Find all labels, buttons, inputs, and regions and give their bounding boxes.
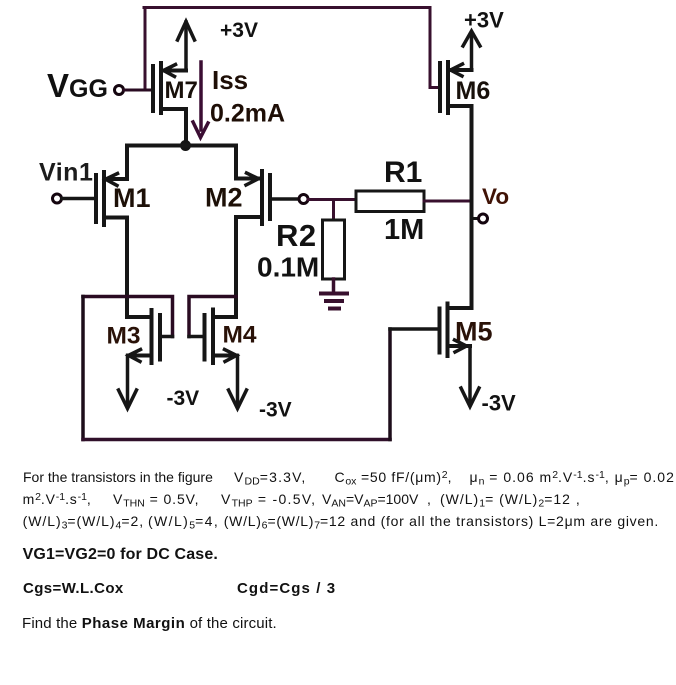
power -3V arrow at M5 source — [461, 346, 516, 416]
svg-text:Iss: Iss — [212, 65, 248, 95]
wire Vin1 to M1 gate — [62, 197, 96, 201]
resistor R1 (1M) — [356, 156, 424, 246]
transistor M4 — [189, 310, 257, 364]
svg-text:0.1M: 0.1M — [257, 252, 319, 283]
svg-text:1M: 1M — [384, 214, 424, 246]
wire feedback right vertical — [388, 329, 392, 440]
svg-text:-3V: -3V — [259, 399, 292, 422]
power +3V arrow at M6 source — [463, 8, 504, 71]
wire feedback left vertical — [81, 297, 85, 440]
wire VGG terminal to M7 gate — [124, 89, 153, 92]
line Cgs — [23, 580, 124, 597]
node Vo terminal — [472, 184, 510, 223]
svg-text:0.2mA: 0.2mA — [210, 100, 285, 128]
wire feedback bottom — [83, 438, 390, 442]
svg-text:V: V — [47, 67, 69, 104]
transistor M5 — [390, 304, 493, 357]
node VGG input terminal — [115, 86, 124, 95]
svg-text:M2: M2 — [205, 183, 243, 213]
wire R1 to Vo column — [424, 200, 470, 203]
transistor M7 — [153, 63, 198, 146]
svg-text:M7: M7 — [165, 77, 198, 104]
line VG1=VG2 — [23, 546, 218, 564]
transistor M6 — [440, 62, 490, 113]
svg-text:M5: M5 — [455, 317, 493, 347]
resistor R2 (0.1M) — [257, 218, 345, 283]
node tail junction dot — [180, 140, 191, 151]
wire top-right vertical to M6 gate — [430, 8, 440, 88]
ground — [321, 294, 347, 309]
transistor M3 — [107, 310, 173, 363]
current annotation Iss 0.2mA — [193, 62, 285, 138]
svg-text:M3: M3 — [107, 323, 141, 350]
wire M2 gate to R junction — [308, 198, 356, 201]
svg-text:Vo: Vo — [482, 184, 509, 209]
wire M1 source riser — [125, 146, 129, 180]
wire M1 drain drop — [125, 218, 129, 318]
wire top rail — [144, 6, 430, 9]
power +3V arrow at M7 source — [178, 19, 258, 71]
svg-text:GG: GG — [69, 75, 108, 103]
problem statement paragraph line 2 — [23, 491, 92, 507]
svg-text:R2: R2 — [276, 218, 317, 253]
wire M4 diode loop (gate to drain) — [189, 297, 236, 337]
svg-text:+3V: +3V — [464, 8, 504, 33]
svg-text:M4: M4 — [223, 322, 257, 349]
svg-text:+3V: +3V — [220, 19, 258, 42]
wire top-left vertical to VGG node — [144, 8, 147, 90]
svg-text:-3V: -3V — [167, 387, 200, 410]
transistor M2 — [205, 171, 299, 224]
problem statement paragraph line 3 — [23, 513, 144, 532]
problem statement paragraph line 1 — [23, 469, 213, 485]
svg-text:-3V: -3V — [482, 391, 517, 416]
transistor M1 — [96, 172, 151, 225]
wire M2 source riser — [234, 146, 238, 179]
node Vin1 terminal — [53, 194, 62, 203]
line find — [22, 615, 277, 632]
wire tail rail — [127, 144, 236, 148]
svg-text:R1: R1 — [384, 156, 422, 189]
wire R2 top stub — [332, 200, 335, 221]
node M2 gate terminal — [299, 195, 308, 204]
svg-text:M1: M1 — [113, 183, 151, 213]
wire R2 to ground — [332, 279, 336, 292]
wire M2 drain drop — [234, 217, 238, 317]
label VGG — [47, 67, 108, 104]
power -3V arrow at M4 source — [229, 356, 292, 422]
svg-text:Vin1: Vin1 — [39, 159, 93, 187]
wire M3 diode loop (gate to drain) — [83, 297, 173, 337]
wire M6 drain to M5 drain (Vo column) — [470, 106, 474, 308]
svg-text:M6: M6 — [456, 77, 491, 105]
power -3V arrow at M3 source — [119, 356, 200, 411]
